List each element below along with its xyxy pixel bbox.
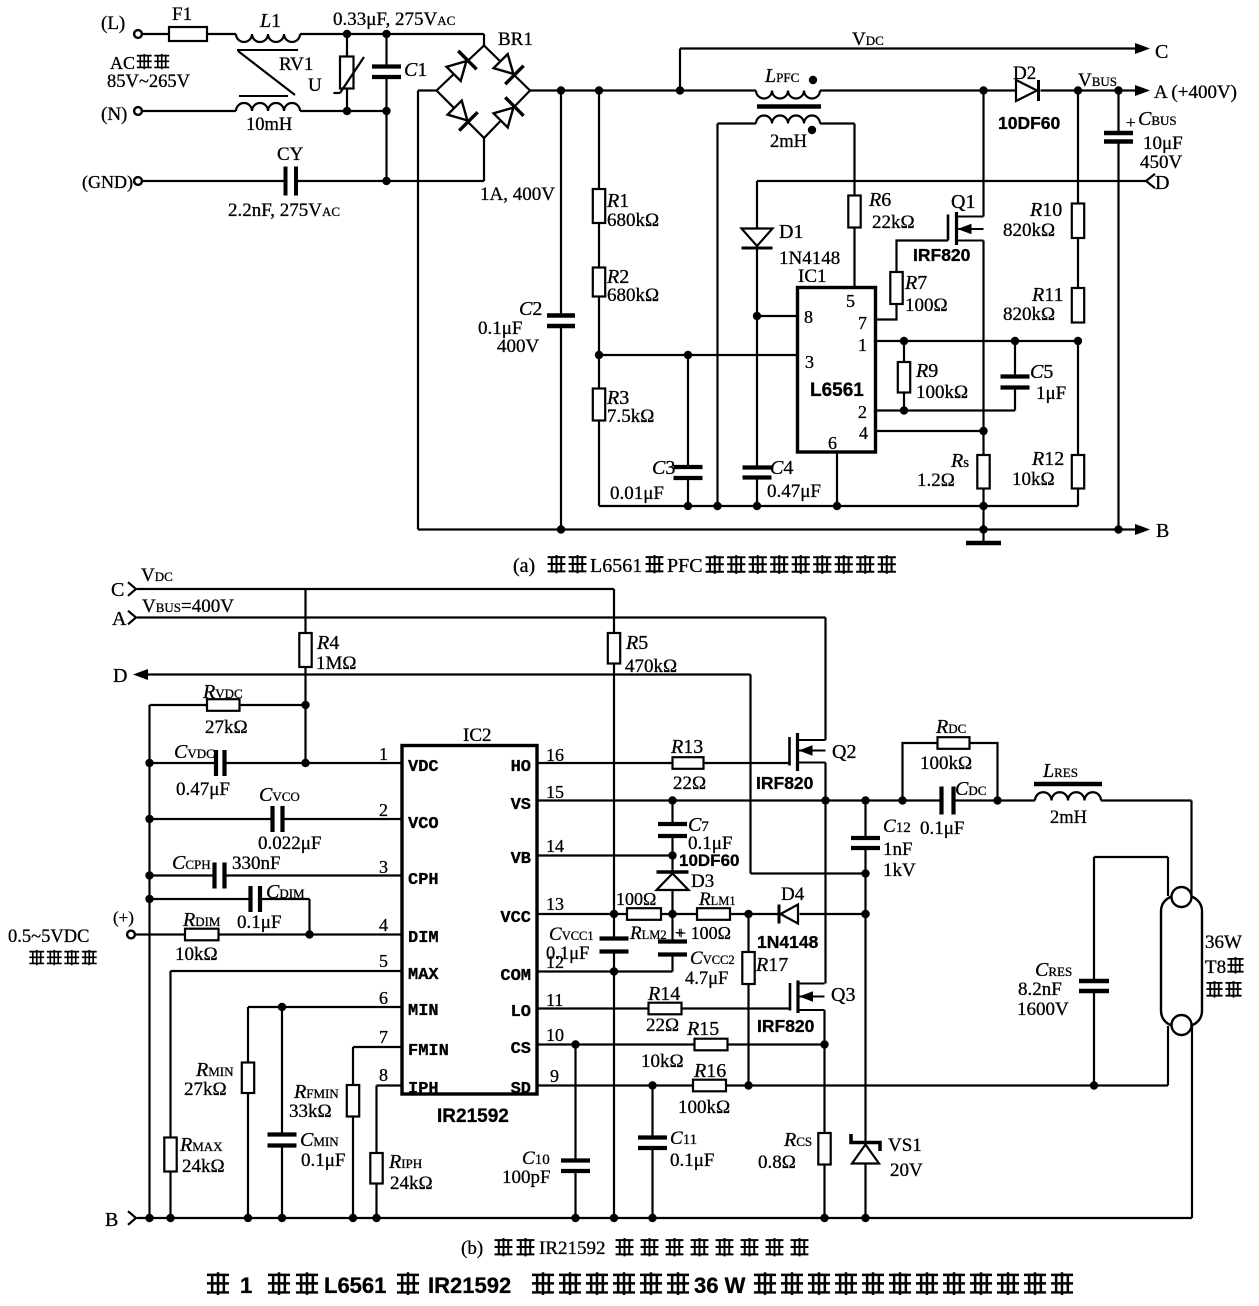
svg-text:VS1: VS1 <box>888 1135 922 1156</box>
svg-text:0.8Ω: 0.8Ω <box>758 1152 796 1173</box>
resistor R11 820k <box>1003 238 1084 325</box>
wire D1 to C4 node <box>756 250 758 468</box>
svg-text:CPH: CPH <box>408 871 439 890</box>
IC2 pin9 SD line <box>537 1081 1168 1089</box>
inductor LRES 2mH <box>1034 760 1102 828</box>
svg-text:AC: AC <box>110 53 135 73</box>
resistor R3 7.5k <box>593 355 655 427</box>
capacitor C4 0.47uF <box>743 457 822 502</box>
svg-text:Q1: Q1 <box>951 191 975 213</box>
svg-text:IC1: IC1 <box>798 266 827 287</box>
svg-text:6: 6 <box>379 988 388 1008</box>
svg-text:IR21592: IR21592 <box>437 1106 509 1127</box>
left bus wire <box>148 705 150 1218</box>
capacitor CY <box>228 144 340 221</box>
IC2 IR21592 <box>402 725 537 1127</box>
capacitor C10 100pF <box>502 1045 590 1219</box>
svg-text:10kΩ: 10kΩ <box>175 944 218 965</box>
wire IC1 pin6 to ground rail <box>836 452 838 506</box>
svg-text:VCO: VCO <box>408 815 439 834</box>
svg-text:Q3: Q3 <box>831 984 855 1006</box>
svg-text:100kΩ: 100kΩ <box>916 382 968 403</box>
resistor R15 10k <box>641 1018 728 1072</box>
svg-text:100Ω: 100Ω <box>616 889 656 909</box>
caption b <box>461 1238 808 1259</box>
svg-text:680kΩ: 680kΩ <box>607 210 659 231</box>
wire R3 to ground rail corner <box>598 421 600 507</box>
svg-text:R13: R13 <box>670 736 703 758</box>
wire VDC takeoff to C <box>680 49 1146 91</box>
svg-text:D1: D1 <box>779 221 803 243</box>
svg-text:400V: 400V <box>497 336 540 357</box>
resistor R13 22 <box>670 736 706 794</box>
IC2 pin numbers <box>379 744 564 1086</box>
fluorescent lamp 36W T8 <box>1161 887 1242 1035</box>
svg-text:IRF820: IRF820 <box>913 245 971 265</box>
diode D3 10DF60 <box>657 851 740 914</box>
arrow B right <box>1135 520 1169 542</box>
svg-text:(GND): (GND) <box>82 172 133 193</box>
svg-text:7: 7 <box>379 1027 388 1047</box>
IC2 pin names right <box>500 758 531 1099</box>
svg-text:100kΩ: 100kΩ <box>678 1097 730 1118</box>
svg-text:1nF: 1nF <box>883 839 913 860</box>
svg-text:5: 5 <box>846 291 855 311</box>
svg-text:8: 8 <box>804 307 813 327</box>
wire C1 to GND line <box>385 111 387 181</box>
svg-text:(a): (a) <box>513 555 535 577</box>
svg-text:R5: R5 <box>625 632 648 654</box>
wire half-bridge mid vertical <box>824 801 826 984</box>
svg-text:C10: C10 <box>522 1148 550 1169</box>
svg-text:0.01μF: 0.01μF <box>610 483 664 504</box>
resistor R16 100k <box>678 1060 730 1118</box>
svg-text:3: 3 <box>379 857 388 877</box>
arrow A +400V <box>1135 82 1237 103</box>
wire R6 to IC1 pin5 <box>853 228 855 288</box>
svg-text:L6561: L6561 <box>324 1273 386 1298</box>
wire pin8 stub <box>757 315 798 317</box>
IC2 pin11 LO line <box>537 1007 790 1009</box>
svg-text:D: D <box>113 665 127 687</box>
svg-text:D2: D2 <box>1013 63 1036 84</box>
svg-text:0.1μF: 0.1μF <box>237 912 282 933</box>
capacitor C7 0.1uF <box>658 801 733 856</box>
svg-text:1: 1 <box>858 335 867 355</box>
resistor RMAX 24k <box>164 1134 224 1218</box>
svg-text:PFC: PFC <box>667 555 703 577</box>
svg-text:A: A <box>112 608 127 630</box>
diode D2 10DF60 <box>998 63 1061 133</box>
wire Q1 drain to main line <box>982 91 984 217</box>
svg-text:100Ω: 100Ω <box>905 295 948 316</box>
svg-text:C12: C12 <box>883 816 911 837</box>
capacitor C1 <box>372 34 427 111</box>
svg-text:15: 15 <box>546 782 564 802</box>
svg-text:450V: 450V <box>1140 152 1183 173</box>
svg-text:B: B <box>1156 520 1169 542</box>
junction dots D net <box>861 869 869 877</box>
wire C line <box>137 589 614 633</box>
resistor R10 820k <box>1003 91 1084 242</box>
resistor Rcs 0.8 <box>758 1129 831 1218</box>
svg-text:22Ω: 22Ω <box>673 773 706 794</box>
svg-text:7: 7 <box>858 313 867 333</box>
svg-text:R14: R14 <box>647 983 680 1005</box>
svg-text:IR21592: IR21592 <box>539 1238 606 1259</box>
figure caption <box>207 1272 1073 1298</box>
arrow C <box>1135 41 1168 63</box>
wire GND line <box>143 138 485 181</box>
wire L line <box>143 34 485 46</box>
svg-text:2: 2 <box>858 402 867 422</box>
svg-text:470kΩ: 470kΩ <box>625 656 677 677</box>
svg-text:B: B <box>105 1209 118 1231</box>
diode D1 1N4148 <box>742 221 841 269</box>
svg-text:10kΩ: 10kΩ <box>641 1051 684 1072</box>
svg-text:C1: C1 <box>404 59 427 81</box>
svg-text:C5: C5 <box>1030 361 1053 383</box>
svg-text:1: 1 <box>379 744 388 764</box>
inductor LPFC primary <box>756 65 820 99</box>
wire Q1 source down <box>982 241 984 456</box>
B rail section a <box>418 525 1144 533</box>
capacitor CBUS 10uF 450V <box>1104 91 1183 530</box>
IC2 pin3 CPH line with capacitor CCPH <box>150 852 403 889</box>
svg-text:A (+400V): A (+400V) <box>1154 82 1237 103</box>
terminal (N) <box>101 104 142 125</box>
svg-text:R16: R16 <box>693 1060 726 1082</box>
svg-text:L1: L1 <box>259 10 281 32</box>
svg-text:L6561: L6561 <box>590 555 642 577</box>
IC1 pin4 line <box>876 430 984 432</box>
svg-text:4: 4 <box>859 423 868 443</box>
resistor R14 22 <box>646 983 682 1036</box>
terminal dim input <box>8 908 135 947</box>
transistor Q1 IRF820 <box>913 191 984 265</box>
svg-text:BR1: BR1 <box>498 29 533 50</box>
section b terminals C A D <box>111 579 136 687</box>
capacitor CRES 8.2nF 1600V <box>1017 857 1109 1086</box>
svg-text:F1: F1 <box>172 4 192 25</box>
svg-text:10kΩ: 10kΩ <box>1012 469 1055 490</box>
IC2 pin1 VDC line with capacitor CVDC <box>150 741 403 800</box>
resistor RLM1 100 <box>676 889 736 943</box>
svg-text:IPH: IPH <box>408 1080 439 1099</box>
lamp label hanzi T8 <box>1205 957 1244 998</box>
svg-text:36 W: 36 W <box>694 1273 746 1298</box>
chevron D right <box>1146 172 1169 194</box>
svg-text:MIN: MIN <box>408 1002 439 1021</box>
svg-text:VBUS: VBUS <box>1078 70 1117 91</box>
svg-text:85V~265V: 85V~265V <box>107 72 191 92</box>
svg-text:+: + <box>1126 113 1136 132</box>
svg-text:2mH: 2mH <box>1050 808 1087 828</box>
caption a <box>513 555 896 577</box>
wire IC1 pin7 to R7 <box>876 304 897 320</box>
svg-text:CS: CS <box>511 1040 531 1059</box>
svg-text:10DF60: 10DF60 <box>998 113 1061 133</box>
terminal (L) <box>134 30 142 38</box>
IC2 pin7 FMIN line <box>353 1047 402 1085</box>
svg-text:4.7μF: 4.7μF <box>685 969 728 989</box>
svg-text:R7: R7 <box>904 272 927 294</box>
svg-text:DIM: DIM <box>408 929 439 948</box>
svg-text:0.5~5VDC: 0.5~5VDC <box>8 927 89 947</box>
svg-text:9: 9 <box>550 1066 559 1086</box>
svg-text:IC2: IC2 <box>463 725 492 746</box>
resistor R12 10k <box>1012 341 1084 506</box>
svg-text:L6561: L6561 <box>810 380 864 401</box>
resistor R4 1M <box>299 589 356 763</box>
svg-text:R9: R9 <box>915 360 938 382</box>
svg-text:VBUS=400V: VBUS=400V <box>142 596 234 617</box>
svg-text:820kΩ: 820kΩ <box>1003 304 1055 325</box>
svg-text:R6: R6 <box>868 189 891 211</box>
svg-text:100pF: 100pF <box>502 1167 551 1188</box>
wire C4 to ground rail <box>756 478 758 507</box>
svg-text:FMIN: FMIN <box>408 1042 449 1061</box>
svg-text:VCC: VCC <box>500 909 531 928</box>
svg-text:1A, 400V: 1A, 400V <box>480 184 555 205</box>
svg-text:VDC: VDC <box>141 565 173 586</box>
IC2 pin13 VCC line <box>537 910 870 918</box>
svg-text:HO: HO <box>511 758 531 777</box>
junction dots left bus <box>301 701 309 709</box>
svg-text:1N4148: 1N4148 <box>757 932 819 952</box>
svg-text:10DF60: 10DF60 <box>679 851 739 870</box>
resistor R7 100 <box>890 272 947 316</box>
resistor R17 <box>742 914 788 1086</box>
svg-text:4: 4 <box>379 915 388 935</box>
capacitor CDIM branch <box>150 881 310 935</box>
svg-text:C4: C4 <box>770 457 793 479</box>
svg-text:10: 10 <box>546 1025 564 1045</box>
svg-text:C3: C3 <box>652 457 675 479</box>
svg-text:27kΩ: 27kΩ <box>205 717 248 738</box>
IC2 pin16 HO line <box>537 762 790 764</box>
resistor R1 680k <box>593 91 659 232</box>
resistor RFMIN 33k <box>289 1081 359 1218</box>
resistor RIPH 24k <box>370 1151 432 1218</box>
svg-text:C: C <box>111 579 124 601</box>
svg-text:0.1μF: 0.1μF <box>301 1150 346 1171</box>
svg-text:24kΩ: 24kΩ <box>182 1156 225 1177</box>
wire A line <box>137 618 826 741</box>
svg-text:RV1: RV1 <box>279 54 313 75</box>
wire N line <box>143 110 387 112</box>
resistor R6 22k <box>848 189 914 233</box>
svg-text:U: U <box>308 75 322 96</box>
fuse F1 <box>169 4 207 41</box>
svg-text:0.47μF: 0.47μF <box>176 779 230 800</box>
svg-text:VDC: VDC <box>408 758 439 777</box>
svg-text:6: 6 <box>828 433 837 453</box>
core bar LPFC <box>757 104 821 109</box>
svg-text:330nF: 330nF <box>232 853 281 874</box>
wire D net down to half-bridge <box>751 675 866 874</box>
svg-text:680kΩ: 680kΩ <box>607 285 659 306</box>
svg-text:VB: VB <box>511 850 531 869</box>
svg-text:0.022μF: 0.022μF <box>258 833 322 854</box>
svg-text:2.2nF, 275VAC: 2.2nF, 275VAC <box>228 200 340 221</box>
svg-text:(N): (N) <box>101 104 127 125</box>
IC2 pin6 MIN line <box>248 1003 402 1063</box>
svg-text:1kV: 1kV <box>883 860 916 881</box>
svg-text:C2: C2 <box>519 298 542 320</box>
svg-text:IR21592: IR21592 <box>428 1273 511 1298</box>
dim input hanzi <box>29 950 96 965</box>
resistor R9 100k <box>898 341 968 411</box>
wire main output line <box>530 89 1144 91</box>
svg-text:0.1μF: 0.1μF <box>920 818 965 839</box>
resistor R2 680k <box>593 223 659 306</box>
capacitor C3 0.01uF <box>610 355 703 506</box>
svg-text:D: D <box>1155 172 1169 194</box>
svg-text:R17: R17 <box>755 954 788 976</box>
wire lamp top-left to CRES stub <box>1094 857 1168 896</box>
svg-text:13: 13 <box>546 894 564 914</box>
capacitor CVCC2 4.7uF electrolytic <box>658 914 735 989</box>
earth ground symbol <box>966 530 1001 544</box>
IC2 pin8 IPH line <box>377 1086 403 1154</box>
svg-text:(+): (+) <box>113 908 134 927</box>
svg-text:8: 8 <box>379 1065 388 1085</box>
svg-text:24kΩ: 24kΩ <box>390 1173 433 1194</box>
wire Q2 source to VS <box>824 763 826 801</box>
capacitor C2 0.1uF 400V <box>478 91 575 530</box>
svg-text:VS: VS <box>511 796 531 815</box>
resistor RVDC 27k <box>150 681 306 738</box>
wire Q3 source down <box>823 1010 825 1133</box>
transistor Q2 IRF820 <box>756 733 856 793</box>
svg-text:1: 1 <box>240 1273 252 1298</box>
junction dot pin4 <box>979 427 987 435</box>
arrow D left <box>133 669 751 680</box>
svg-text:5: 5 <box>379 951 388 971</box>
svg-text:Q2: Q2 <box>832 741 856 763</box>
wire D net section a <box>757 181 1146 229</box>
svg-text:820kΩ: 820kΩ <box>1003 220 1055 241</box>
IC1 L6561 <box>798 266 876 453</box>
IC1 pin2 line <box>876 406 1016 414</box>
resistor Rs 1.2 <box>917 450 990 491</box>
svg-text:22Ω: 22Ω <box>646 1015 679 1036</box>
svg-text:7.5kΩ: 7.5kΩ <box>607 406 654 427</box>
wire bridge negative to B rail <box>417 91 419 530</box>
wire R2 to node pin3 <box>598 297 600 356</box>
diode D4 1N4148 <box>757 884 819 952</box>
IC2 pin15 VS line <box>537 796 1192 896</box>
svg-text:1.2Ω: 1.2Ω <box>917 470 955 491</box>
wire Rs to B rail <box>982 489 984 530</box>
terminal (GND) <box>82 172 142 193</box>
ground sub-rail section a <box>599 502 1078 510</box>
wire R7 to Q1 gate <box>897 241 949 273</box>
varistor RV1 <box>279 34 364 111</box>
capacitor CDC 0.1uF <box>920 778 986 839</box>
wire secondary left to ground rail <box>716 124 718 507</box>
svg-text:VDC: VDC <box>852 29 884 50</box>
capacitor C12 1nF 1kV <box>851 801 916 882</box>
svg-text:8.2nF: 8.2nF <box>1018 979 1062 1000</box>
wire lamp bottom-left to SD line <box>1167 1026 1169 1086</box>
svg-text:R4: R4 <box>316 632 339 654</box>
resistor R5 470k <box>608 632 677 914</box>
svg-text:3: 3 <box>805 352 814 372</box>
svg-text:36W: 36W <box>1205 932 1242 953</box>
svg-text:R15: R15 <box>686 1018 719 1040</box>
svg-text:0.33μF, 275VAC: 0.33μF, 275VAC <box>333 9 455 30</box>
svg-text:MAX: MAX <box>408 966 439 985</box>
svg-text:(L): (L) <box>101 13 125 34</box>
IC2 pin12 COM line <box>537 967 673 975</box>
svg-text:1MΩ: 1MΩ <box>316 653 357 674</box>
inductor LPFC secondary 2mH <box>718 116 855 153</box>
capacitor C5 1uF <box>1001 341 1067 411</box>
svg-text:C11: C11 <box>670 1128 697 1149</box>
svg-text:(b): (b) <box>461 1238 483 1259</box>
wire secondary right to R6 <box>853 124 855 196</box>
svg-text:0.47μF: 0.47μF <box>767 481 821 502</box>
svg-text:0.1μF: 0.1μF <box>546 944 589 964</box>
svg-text:LO: LO <box>511 1003 531 1022</box>
bridge rectifier BR1 <box>418 29 555 205</box>
resistor RDC 100k <box>903 716 998 801</box>
svg-text:33kΩ: 33kΩ <box>289 1101 332 1122</box>
svg-text:C: C <box>1155 41 1168 63</box>
AC input hanzi <box>137 54 169 69</box>
wire lamp bottom-right to B rail <box>1191 1026 1193 1218</box>
IC2 pin names left <box>408 758 449 1099</box>
zener VS1 20V <box>851 874 923 1219</box>
resistor RMIN 27k <box>184 1059 254 1218</box>
IC2 pin2 VCO line with capacitor CVCO <box>150 784 403 854</box>
svg-text:IRF820: IRF820 <box>757 1016 815 1036</box>
svg-text:27kΩ: 27kΩ <box>184 1079 227 1100</box>
inductor L1 common-mode choke <box>236 10 300 135</box>
svg-text:CY: CY <box>277 144 304 165</box>
resistor RDIM 10k <box>136 909 403 965</box>
resistor RLM2 100 <box>616 889 667 944</box>
svg-text:22kΩ: 22kΩ <box>872 212 915 233</box>
svg-text:IRF820: IRF820 <box>756 773 814 793</box>
IC1 pin1 line <box>876 337 1083 345</box>
svg-text:10μF: 10μF <box>1143 133 1183 154</box>
svg-text:2mH: 2mH <box>770 132 807 152</box>
capacitor CMIN 0.1uF <box>268 1007 346 1218</box>
section (a) PFC pre-converter <box>101 13 142 73</box>
capacitor CVCC1 0.1uF <box>546 914 629 972</box>
transistor Q3 IRF820 <box>757 981 855 1037</box>
wire COM bus to B rail <box>613 972 615 1219</box>
svg-text:R11: R11 <box>1031 284 1063 306</box>
junction dot pin8 node <box>753 312 761 320</box>
svg-text:10mH: 10mH <box>246 115 292 135</box>
capacitor C11 0.1uF <box>638 1086 715 1219</box>
junction dots main line <box>343 30 351 38</box>
IC2 pin10 CS line <box>537 1040 829 1048</box>
svg-text:0.1μF: 0.1μF <box>670 1150 715 1171</box>
svg-text:D4: D4 <box>781 884 805 905</box>
svg-text:R10: R10 <box>1029 199 1062 221</box>
svg-text:R12: R12 <box>1031 448 1064 470</box>
svg-text:COM: COM <box>500 967 531 986</box>
svg-text:SD: SD <box>511 1080 531 1099</box>
wire lamp top-right from VS line <box>0 0 1 1</box>
B rail section b <box>105 1209 1192 1231</box>
svg-text:+: + <box>675 925 684 942</box>
